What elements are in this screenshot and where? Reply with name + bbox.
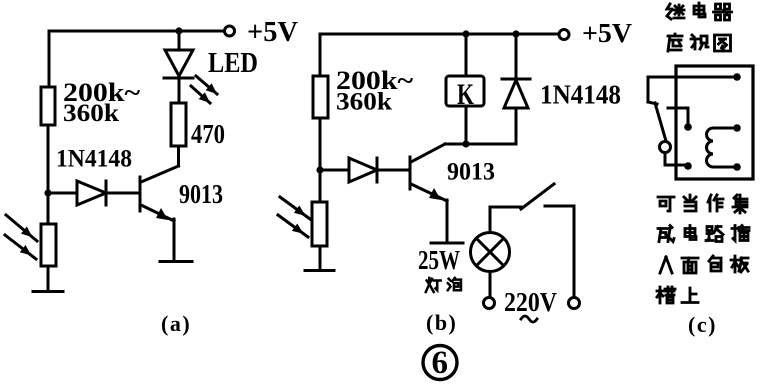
wire: right contact <box>545 206 574 297</box>
pin 2 mid-left <box>684 123 692 131</box>
svg-text:470: 470 <box>191 119 225 149</box>
switch blade (relay contact) <box>521 184 554 209</box>
svg-text:6: 6 <box>432 345 449 381</box>
ground (a left) <box>33 290 63 293</box>
wire: lamp top to switch <box>490 207 521 233</box>
ground (a emitter) <box>160 260 192 263</box>
switch pivot tick <box>648 102 657 104</box>
wire: lamp bottom to terminal <box>489 272 492 298</box>
relay body outline <box>676 66 753 179</box>
svg-text:(b): (b) <box>426 310 457 335</box>
lamp EL 25W <box>471 233 510 272</box>
node: +5V terminal (b) <box>559 30 569 40</box>
svg-text:LED: LED <box>208 48 258 79</box>
label ~ under 220V <box>521 316 537 322</box>
node: diode branch junction top <box>512 30 519 37</box>
node: LED branch junction <box>175 27 182 34</box>
transistor Q2 9013 (b) <box>409 157 412 189</box>
svg-text:360k: 360k <box>63 100 119 127</box>
relay coil K <box>446 76 484 106</box>
svg-text:1N4148: 1N4148 <box>56 146 132 173</box>
wire: +5V top rail (b) <box>320 33 558 36</box>
diode D3 (b base) <box>320 169 349 172</box>
svg-text:(a): (a) <box>161 311 191 336</box>
wire: K to top rail <box>465 34 468 76</box>
resistor R3 200k~360k (b) <box>313 76 328 118</box>
label 人面包板 <box>660 257 672 273</box>
wire: emitter down (b) <box>446 200 449 240</box>
svg-text:9013: 9013 <box>179 179 223 209</box>
node: K branch junction top <box>462 30 469 37</box>
label 成电路插 <box>658 226 674 242</box>
svg-text:9013: 9013 <box>447 159 495 186</box>
ground (b emitter) <box>431 242 463 245</box>
label 继电器 <box>667 4 684 19</box>
wire: left rail (b) <box>319 34 322 76</box>
light arrows onto RG1 <box>6 215 37 241</box>
node: +5V terminal (a) <box>225 26 235 36</box>
wire: K to bottom rail <box>465 106 468 144</box>
pin 4 bottom-left <box>684 162 692 170</box>
label 可当作集 <box>658 197 674 211</box>
wire: common to pin4 <box>665 153 686 165</box>
wire: collector rail (b) <box>445 143 516 146</box>
wire: +5V top rail (a) <box>49 30 224 33</box>
wire: pin1 to pivot <box>648 77 737 102</box>
pin 1 top-right <box>733 73 741 81</box>
wire: emitter down <box>173 219 176 259</box>
svg-text:(c): (c) <box>688 312 717 337</box>
wire: R3 down to LDR <box>319 118 322 202</box>
svg-text:+5V: +5V <box>247 17 298 48</box>
diode D1 1N4148 (a) <box>48 192 77 195</box>
label 底视图 <box>668 34 682 51</box>
pin 5 coil bottom <box>733 163 741 171</box>
node: base junction (b) <box>316 166 323 173</box>
node: K bottom junction <box>462 140 469 147</box>
ground (b left) <box>305 269 334 272</box>
transistor Q1 9013 <box>141 166 179 182</box>
node: 220V right terminal <box>569 298 580 309</box>
light arrows onto RG2 <box>280 197 310 219</box>
wire: LDR to ground (b) <box>319 246 322 268</box>
wire: junction to LED <box>178 31 181 50</box>
svg-text:25W: 25W <box>418 245 460 275</box>
svg-text:220V: 220V <box>504 287 557 317</box>
node: 220V left terminal <box>484 298 495 309</box>
photoresistor RG1 (a) <box>41 224 56 266</box>
wire: LED to R2 <box>178 78 181 103</box>
svg-text:+5V: +5V <box>582 18 633 48</box>
label 槽上 <box>657 287 675 303</box>
LED light arrows <box>196 76 217 94</box>
figure number 6 <box>423 346 457 380</box>
svg-text:1N4148: 1N4148 <box>540 80 621 110</box>
resistor R2 470 <box>171 103 186 146</box>
wire: left rail top <box>48 31 51 87</box>
LED D2 <box>165 50 193 76</box>
wire: pin2 hook <box>668 108 688 126</box>
wire: R1 to junction to LDR <box>47 125 50 224</box>
diode D4 1N4148 (b) <box>515 34 518 80</box>
wire: R2 to collector <box>177 146 180 166</box>
common terminal circle <box>660 142 671 153</box>
switch blade <box>655 103 666 141</box>
label 灯泡 <box>426 278 441 292</box>
svg-text:360k: 360k <box>336 89 392 116</box>
node: base junction (a) <box>44 189 51 196</box>
resistor R1 200k~360k (a) <box>41 87 55 125</box>
relay coil winding <box>707 128 737 167</box>
pin 3 coil top <box>733 124 741 132</box>
photoresistor RG2 (b) <box>312 202 327 246</box>
wire: LDR to ground <box>47 266 50 289</box>
